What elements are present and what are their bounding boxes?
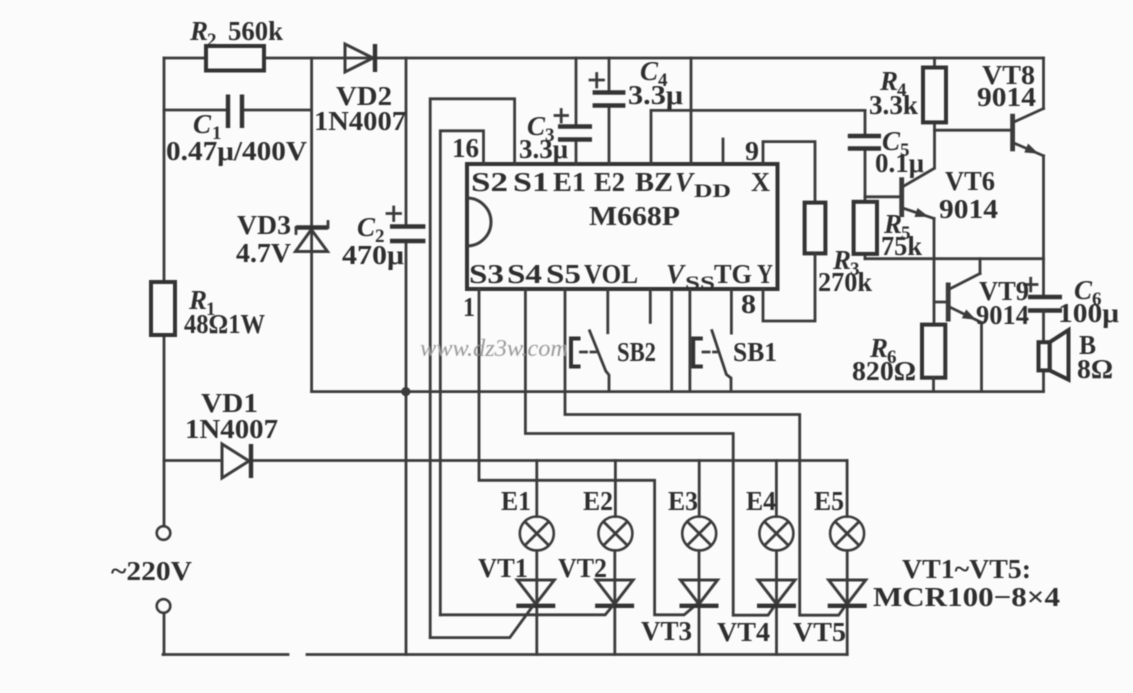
lamp E1	[520, 461, 554, 655]
capacitor C5	[848, 110, 881, 196]
wire C6 to speaker	[1042, 311, 1045, 392]
wire VT9 emitter drop	[980, 323, 983, 392]
svg-text:9: 9	[745, 136, 759, 166]
svg-text:VOL: VOL	[584, 259, 638, 289]
terminal node bottom of ~220V	[157, 599, 171, 613]
resistor R3	[805, 203, 826, 254]
svg-text:E1: E1	[553, 167, 586, 197]
wire VT8 collector rail	[1042, 58, 1045, 109]
diode VD1	[222, 444, 251, 478]
svg-text:0.47μ/400V: 0.47μ/400V	[166, 136, 308, 166]
svg-text:C: C	[357, 212, 376, 242]
wire X pin 9 to R3 top	[763, 142, 815, 203]
svg-text:E2: E2	[594, 167, 625, 197]
wire emitter bus y=258.7	[865, 257, 1044, 260]
svg-text:VT6: VT6	[945, 166, 995, 196]
svg-text:VD3: VD3	[237, 210, 291, 240]
svg-text:1N4007: 1N4007	[185, 414, 278, 444]
terminal node top of ~220V	[157, 526, 171, 540]
svg-text:~220V: ~220V	[111, 556, 193, 586]
label C3 3.3u	[519, 111, 568, 164]
svg-text:V: V	[666, 259, 686, 289]
pushbutton SB2	[571, 331, 609, 392]
label R6 820ohm	[852, 333, 916, 386]
label C5 0.1u	[875, 126, 924, 178]
svg-text:V: V	[675, 167, 695, 197]
svg-text:R: R	[189, 16, 208, 46]
wire S4 pin to VT4 gate	[525, 289, 775, 615]
svg-text:X: X	[751, 167, 770, 197]
svg-text:3.3k: 3.3k	[869, 90, 918, 120]
resistor R5	[854, 197, 877, 259]
wire VDD pin stub	[722, 139, 725, 164]
pin number 1	[463, 292, 475, 322]
svg-text:VT1: VT1	[478, 553, 528, 583]
svg-text:VT1~VT5:: VT1~VT5:	[902, 554, 1031, 584]
svg-text:S3: S3	[469, 259, 504, 289]
wire VT9 base riser and R6 link	[934, 259, 946, 325]
wire E2 pin to C4 to rail	[608, 58, 611, 164]
IC top pin names S2 S1 E1 E2 BZ VDD X	[471, 167, 770, 202]
wire VT1 gate from S1	[430, 605, 534, 638]
label R1 48ohm1W	[184, 285, 265, 339]
zener diode VD3	[296, 222, 329, 252]
resistor R4	[923, 58, 946, 168]
svg-text:560k: 560k	[228, 16, 283, 46]
wire S5 pin to VT5 gate	[565, 289, 846, 615]
capacitor C1	[164, 95, 312, 129]
svg-text:E3: E3	[668, 486, 698, 516]
svg-text:C: C	[193, 109, 212, 139]
resistor R2	[206, 46, 264, 71]
wire VT9 collector riser	[979, 259, 982, 274]
IC U1 M668P body	[467, 164, 778, 289]
label VT8 9014	[977, 60, 1036, 112]
svg-text:Y: Y	[757, 259, 773, 289]
label VT2	[558, 553, 607, 583]
svg-text:75k: 75k	[881, 231, 922, 261]
svg-text:SB2: SB2	[617, 337, 656, 367]
pin number 8	[741, 289, 756, 319]
note VT1~VT5: MCR100-8x4	[873, 554, 1060, 612]
label SB1	[733, 337, 777, 367]
diode VD2	[345, 44, 375, 72]
label R5 75k	[881, 209, 922, 261]
lamp E5	[830, 461, 864, 655]
label VT1	[478, 553, 528, 583]
wire Y pin 8 to R3 bottom	[763, 253, 815, 321]
label VD2 1N4007	[314, 81, 406, 136]
wire lamp feed line y=460.5	[164, 459, 847, 462]
wire left rail	[163, 58, 166, 655]
svg-text:S5: S5	[546, 259, 581, 289]
capacitor C3	[555, 110, 592, 140]
label E2	[583, 486, 613, 516]
resistor R6	[922, 325, 945, 392]
svg-text:3.3μ: 3.3μ	[628, 80, 683, 110]
label VD1 1N4007	[185, 388, 278, 444]
label VT9 9014	[976, 276, 1029, 330]
label VT3	[641, 616, 692, 646]
svg-text:E2: E2	[583, 486, 613, 516]
svg-text:VT2: VT2	[558, 553, 607, 583]
wire VSS stub	[649, 289, 652, 322]
wire VT6 emitter drop	[933, 219, 936, 259]
resistor R1	[151, 282, 175, 335]
label C4 3.3u	[628, 56, 683, 110]
wire BZ pin riser and VDD feed line y=110.4	[651, 58, 865, 164]
label VT5	[793, 617, 846, 647]
lamp E4	[759, 461, 793, 655]
wire bottom mains return bus y=654.5	[163, 653, 847, 656]
label E3	[668, 486, 698, 516]
wire S3 pin1 to VT3 gate	[479, 289, 696, 615]
capacitor C4	[590, 74, 625, 106]
svg-text:9014: 9014	[976, 300, 1029, 330]
wire ground drop A	[670, 289, 673, 392]
svg-text:1N4007: 1N4007	[314, 106, 406, 136]
svg-text:0.1μ: 0.1μ	[875, 148, 924, 178]
svg-text:www.dz3w.com: www.dz3w.com	[420, 336, 568, 362]
wire ground bus y=391.6	[312, 390, 1044, 393]
wire VT2 gate from S2	[440, 605, 613, 615]
thyristor VT1	[516, 580, 555, 606]
wire TG pin to SB1	[730, 289, 733, 333]
label C2 470u	[342, 212, 404, 270]
thyristor VT5	[828, 580, 867, 606]
thyristor VT2	[595, 580, 634, 606]
label speaker B 8ohm	[1077, 330, 1113, 384]
wire VD3 branch rail x=311.6	[310, 58, 313, 392]
svg-text:9014: 9014	[939, 194, 998, 224]
label C1 0.47u/400V	[166, 109, 308, 166]
label SB2	[617, 337, 656, 367]
svg-text:E5: E5	[814, 486, 844, 516]
label E4	[746, 486, 776, 516]
svg-text:BZ: BZ	[635, 167, 673, 197]
wire VT8 emitter rail down to C6	[1042, 156, 1045, 296]
svg-text:16: 16	[452, 133, 479, 163]
svg-text:8: 8	[741, 289, 756, 319]
svg-text:270k: 270k	[818, 267, 872, 297]
wire E1 pin to C3 to rail	[575, 58, 578, 164]
thyristor VT4	[757, 580, 796, 606]
label R3 270k	[818, 245, 872, 297]
label ~220V	[111, 556, 193, 586]
svg-text:E4: E4	[746, 486, 776, 516]
svg-text:M668P: M668P	[589, 201, 680, 231]
svg-text:VT5: VT5	[793, 617, 846, 647]
transistor VT8	[1010, 109, 1043, 156]
svg-text:3.3μ: 3.3μ	[519, 134, 568, 164]
label E5	[814, 486, 844, 516]
wire pin16 S2 loop	[440, 131, 483, 615]
watermark www.dz3w.com	[420, 336, 568, 362]
label E1	[501, 486, 531, 516]
svg-text:MCR100−8×4: MCR100−8×4	[873, 582, 1060, 612]
svg-text:8Ω: 8Ω	[1077, 354, 1113, 384]
svg-text:48Ω1W: 48Ω1W	[184, 309, 265, 339]
pin number 16	[452, 133, 479, 163]
svg-text:2: 2	[207, 30, 217, 51]
wire R4 bottom to VT8 base	[935, 129, 1011, 132]
svg-text:4.7V: 4.7V	[236, 238, 292, 268]
transistor VT6	[865, 169, 934, 219]
pin number 9	[745, 136, 759, 166]
svg-text:DD: DD	[694, 181, 731, 202]
wire VOL pin to SB2	[606, 289, 609, 333]
label R2 value 560k	[189, 16, 283, 51]
wire top supply rail y=58	[164, 57, 1044, 60]
lamp E2	[598, 461, 632, 655]
svg-text:820Ω: 820Ω	[852, 356, 916, 386]
IC bottom pin names S3 S4 S5 VOL VSS TG Y	[469, 259, 773, 294]
svg-text:S4: S4	[507, 259, 542, 289]
wire C2 rail x=406	[405, 58, 408, 655]
label VD3 4.7V	[236, 210, 292, 268]
IC part number M668P	[589, 201, 680, 231]
svg-text:SS: SS	[685, 273, 715, 294]
svg-text:S2: S2	[471, 167, 508, 197]
svg-text:VT4: VT4	[717, 617, 770, 647]
svg-text:1: 1	[463, 292, 475, 322]
svg-text:470μ: 470μ	[342, 240, 404, 270]
svg-text:E1: E1	[501, 486, 531, 516]
wire ground drop B	[689, 289, 692, 392]
svg-text:S1: S1	[513, 167, 549, 197]
thyristor VT3	[680, 580, 719, 606]
label C6 100u	[1058, 275, 1119, 328]
pushbutton SB1	[693, 331, 731, 392]
svg-text:VT3: VT3	[641, 616, 692, 646]
label R4 3.3k	[869, 66, 918, 120]
transistor VT9	[946, 274, 982, 323]
svg-text:9014: 9014	[977, 82, 1036, 112]
capacitor C6	[1025, 278, 1063, 310]
speaker B	[1039, 330, 1069, 380]
capacitor C2	[387, 207, 425, 241]
junction dot ground/C2 rail	[401, 387, 410, 396]
svg-text:100μ: 100μ	[1058, 298, 1119, 328]
label VT4	[717, 617, 770, 647]
label VT6 9014	[939, 166, 998, 224]
wire pin15 S1 loop	[430, 99, 514, 638]
lamp E3	[682, 461, 716, 655]
svg-text:SB1: SB1	[733, 337, 777, 367]
svg-text:TG: TG	[714, 259, 752, 289]
